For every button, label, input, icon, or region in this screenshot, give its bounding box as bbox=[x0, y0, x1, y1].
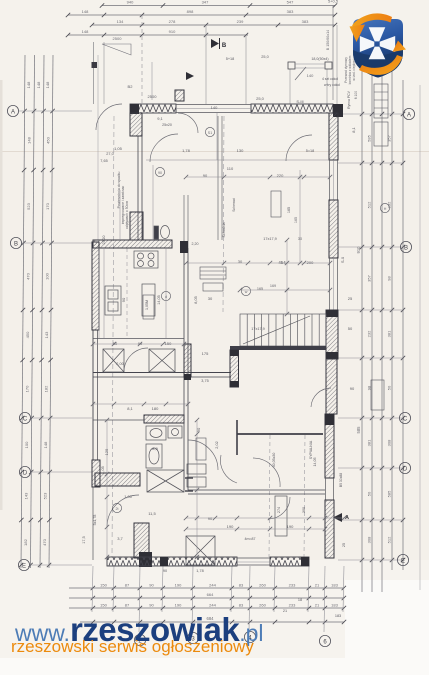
svg-text:140: 140 bbox=[307, 73, 314, 78]
svg-text:21: 21 bbox=[283, 609, 287, 613]
svg-text:7,65: 7,65 bbox=[100, 159, 107, 163]
svg-text:190: 190 bbox=[175, 583, 182, 588]
svg-text:244: 244 bbox=[209, 603, 216, 608]
svg-text:B2: B2 bbox=[128, 84, 134, 89]
svg-text:454: 454 bbox=[278, 260, 286, 265]
svg-text:140: 140 bbox=[211, 105, 218, 110]
svg-text:C: C bbox=[23, 416, 28, 422]
svg-text:A: A bbox=[11, 109, 15, 115]
svg-text:11,5: 11,5 bbox=[148, 511, 156, 516]
svg-text:w: w bbox=[245, 290, 248, 294]
svg-text:25,0: 25,0 bbox=[261, 55, 268, 59]
svg-text:98: 98 bbox=[387, 276, 392, 281]
svg-text:100: 100 bbox=[44, 272, 49, 279]
svg-text:165: 165 bbox=[287, 207, 291, 213]
svg-text:260: 260 bbox=[259, 603, 266, 608]
svg-text:1,05: 1,05 bbox=[114, 146, 123, 151]
svg-text:5=18: 5=18 bbox=[306, 149, 315, 153]
svg-text:83: 83 bbox=[239, 603, 244, 608]
svg-text:Schodnia: Schodnia bbox=[222, 223, 226, 238]
svg-text:8,1: 8,1 bbox=[127, 406, 133, 411]
svg-text:150: 150 bbox=[100, 603, 107, 608]
svg-text:180: 180 bbox=[152, 406, 159, 411]
svg-text:2,00: 2,00 bbox=[116, 362, 123, 366]
svg-text:E: E bbox=[22, 563, 26, 569]
svg-text:169: 169 bbox=[270, 284, 276, 288]
svg-text:H: H bbox=[384, 207, 387, 211]
svg-text:585: 585 bbox=[367, 134, 372, 141]
svg-text:50: 50 bbox=[387, 385, 392, 390]
svg-text:148: 148 bbox=[82, 29, 89, 34]
svg-text:30,05x30: 30,05x30 bbox=[272, 453, 276, 468]
svg-text:C: C bbox=[403, 416, 408, 422]
svg-text:523: 523 bbox=[43, 492, 48, 499]
svg-text:150: 150 bbox=[100, 583, 107, 588]
svg-text:308: 308 bbox=[367, 536, 372, 543]
svg-text:90: 90 bbox=[149, 603, 154, 608]
svg-text:190: 190 bbox=[175, 603, 182, 608]
svg-text:170: 170 bbox=[24, 385, 29, 392]
svg-text:2500: 2500 bbox=[113, 36, 123, 41]
svg-text:383: 383 bbox=[302, 19, 309, 24]
svg-text:25x20: 25x20 bbox=[162, 123, 172, 127]
svg-text:150: 150 bbox=[165, 341, 172, 346]
svg-text:90: 90 bbox=[208, 516, 213, 521]
svg-text:2,02: 2,02 bbox=[215, 441, 219, 448]
svg-text:512: 512 bbox=[367, 201, 372, 208]
svg-text:5+0,5: 5+0,5 bbox=[328, 0, 339, 4]
svg-text:523: 523 bbox=[26, 202, 31, 209]
svg-text:Schemat: Schemat bbox=[232, 198, 236, 211]
svg-text:14,05: 14,05 bbox=[157, 295, 161, 305]
svg-text:148: 148 bbox=[82, 9, 89, 14]
svg-text:278: 278 bbox=[169, 19, 176, 24]
svg-text:2t: 2t bbox=[116, 507, 119, 511]
svg-text:134: 134 bbox=[117, 19, 124, 24]
svg-text:21: 21 bbox=[315, 583, 320, 588]
svg-text:87: 87 bbox=[125, 603, 130, 608]
svg-text:2500: 2500 bbox=[101, 235, 106, 245]
svg-text:E: E bbox=[401, 558, 405, 564]
svg-text:898: 898 bbox=[187, 9, 194, 14]
svg-text:165: 165 bbox=[294, 217, 298, 223]
svg-text:B5 30x88: B5 30x88 bbox=[339, 473, 343, 487]
svg-text:183: 183 bbox=[331, 583, 338, 588]
svg-text:512: 512 bbox=[387, 536, 392, 543]
svg-text:Rynna PCV: Rynna PCV bbox=[347, 90, 351, 108]
svg-text:18: 18 bbox=[298, 598, 302, 602]
svg-text:S-0: S-0 bbox=[340, 256, 345, 263]
svg-text:D: D bbox=[23, 470, 28, 476]
svg-text:4m=87: 4m=87 bbox=[244, 537, 255, 541]
svg-text:17,5: 17,5 bbox=[82, 536, 86, 543]
svg-text:8,9: 8,9 bbox=[152, 446, 158, 451]
svg-text:8,05: 8,05 bbox=[194, 296, 198, 303]
svg-text:148: 148 bbox=[45, 81, 50, 88]
svg-text:SYPIALNIA: SYPIALNIA bbox=[309, 440, 313, 459]
svg-text:547: 547 bbox=[287, 0, 294, 5]
svg-text:260: 260 bbox=[259, 583, 266, 588]
svg-text:143: 143 bbox=[24, 492, 29, 499]
svg-text:183: 183 bbox=[335, 614, 341, 618]
svg-text:182: 182 bbox=[23, 538, 28, 545]
svg-text:25: 25 bbox=[348, 296, 353, 301]
svg-text:1,78: 1,78 bbox=[182, 148, 191, 153]
svg-text:308: 308 bbox=[387, 439, 392, 446]
svg-text:odplywach o 50cm: odplywach o 50cm bbox=[125, 201, 129, 229]
svg-text:fi 100: fi 100 bbox=[354, 91, 358, 99]
svg-text:190: 190 bbox=[227, 524, 234, 529]
svg-text:100: 100 bbox=[24, 441, 29, 448]
svg-text:233: 233 bbox=[289, 603, 296, 608]
svg-text:450: 450 bbox=[45, 136, 50, 143]
svg-text:87: 87 bbox=[125, 583, 130, 588]
svg-text:30: 30 bbox=[208, 296, 213, 301]
svg-text:21: 21 bbox=[315, 603, 320, 608]
svg-text:17x17,9: 17x17,9 bbox=[251, 327, 265, 331]
svg-text:239: 239 bbox=[237, 19, 244, 24]
svg-text:D: D bbox=[403, 466, 408, 472]
svg-text:B: B bbox=[222, 43, 227, 49]
svg-text:83: 83 bbox=[239, 583, 244, 588]
svg-text:S-III: S-III bbox=[296, 99, 303, 104]
svg-text:2,20: 2,20 bbox=[192, 242, 199, 246]
svg-text:1,05: 1,05 bbox=[101, 466, 105, 473]
svg-text:381: 381 bbox=[367, 439, 372, 446]
svg-text:125: 125 bbox=[104, 448, 109, 455]
svg-text:233: 233 bbox=[289, 583, 296, 588]
svg-text:90: 90 bbox=[149, 583, 154, 588]
svg-text:50: 50 bbox=[367, 491, 372, 496]
svg-text:232: 232 bbox=[387, 201, 392, 208]
svg-text:50: 50 bbox=[348, 326, 353, 331]
svg-text:5+18: 5+18 bbox=[226, 57, 235, 61]
svg-text:110: 110 bbox=[227, 166, 234, 171]
svg-text:w try cokol: w try cokol bbox=[324, 83, 340, 87]
svg-text:175: 175 bbox=[202, 351, 209, 356]
svg-text:1,78: 1,78 bbox=[196, 569, 203, 573]
svg-text:3,7: 3,7 bbox=[117, 536, 123, 541]
svg-text:148: 148 bbox=[26, 136, 31, 143]
svg-text:165: 165 bbox=[257, 287, 263, 291]
svg-text:18,0(50x4): 18,0(50x4) bbox=[311, 57, 328, 61]
svg-text:244: 244 bbox=[209, 583, 216, 588]
svg-text:S1: S1 bbox=[208, 131, 212, 135]
svg-text:130: 130 bbox=[237, 148, 244, 153]
svg-text:B: B bbox=[14, 241, 18, 247]
svg-text:17x17,9: 17x17,9 bbox=[263, 237, 277, 241]
svg-text:1,05: 1,05 bbox=[124, 495, 131, 499]
svg-text:148: 148 bbox=[43, 441, 48, 448]
svg-text:90: 90 bbox=[163, 569, 167, 573]
svg-text:232: 232 bbox=[367, 330, 372, 337]
svg-text:450: 450 bbox=[25, 331, 30, 338]
svg-text:90: 90 bbox=[121, 297, 126, 302]
svg-text:A: A bbox=[407, 112, 411, 118]
svg-text:470: 470 bbox=[25, 272, 30, 279]
svg-text:274: 274 bbox=[277, 507, 281, 513]
svg-text:585: 585 bbox=[356, 426, 361, 434]
svg-text:27,0: 27,0 bbox=[106, 152, 113, 156]
svg-text:25,0: 25,0 bbox=[256, 96, 265, 101]
svg-text:5x1,78: 5x1,78 bbox=[93, 515, 97, 526]
svg-text:940: 940 bbox=[127, 0, 134, 5]
svg-text:182: 182 bbox=[43, 385, 48, 392]
svg-text:8,1: 8,1 bbox=[351, 126, 356, 132]
svg-text:4 szt cokol: 4 szt cokol bbox=[322, 77, 338, 81]
svg-text:357: 357 bbox=[387, 134, 392, 141]
svg-text:B: B bbox=[404, 245, 408, 251]
svg-text:357: 357 bbox=[367, 274, 372, 281]
svg-text:9,1: 9,1 bbox=[157, 116, 163, 121]
svg-text:148: 148 bbox=[36, 81, 41, 88]
svg-text:25: 25 bbox=[342, 543, 346, 547]
svg-text:664: 664 bbox=[207, 592, 214, 597]
svg-text:90: 90 bbox=[350, 386, 355, 391]
svg-text:381: 381 bbox=[387, 330, 392, 337]
svg-text:200: 200 bbox=[307, 260, 314, 265]
svg-text:183: 183 bbox=[331, 603, 338, 608]
svg-text:2500: 2500 bbox=[148, 94, 158, 99]
svg-text:190: 190 bbox=[287, 524, 294, 529]
svg-text:470: 470 bbox=[42, 538, 47, 545]
svg-text:90: 90 bbox=[158, 171, 162, 175]
svg-text:50: 50 bbox=[113, 341, 118, 346]
svg-text:B 150/60x14: B 150/60x14 bbox=[326, 30, 330, 50]
svg-text:383: 383 bbox=[287, 9, 294, 14]
svg-text:143: 143 bbox=[44, 331, 49, 338]
svg-text:3,75: 3,75 bbox=[201, 379, 208, 383]
svg-text:300: 300 bbox=[302, 507, 306, 513]
svg-text:585: 585 bbox=[387, 490, 392, 497]
svg-text:1,05M: 1,05M bbox=[145, 300, 149, 310]
svg-text:910: 910 bbox=[169, 29, 176, 34]
svg-text:14,05: 14,05 bbox=[313, 458, 317, 467]
svg-text:170: 170 bbox=[45, 202, 50, 209]
svg-text:347: 347 bbox=[202, 0, 209, 5]
svg-text:148: 148 bbox=[26, 81, 31, 88]
